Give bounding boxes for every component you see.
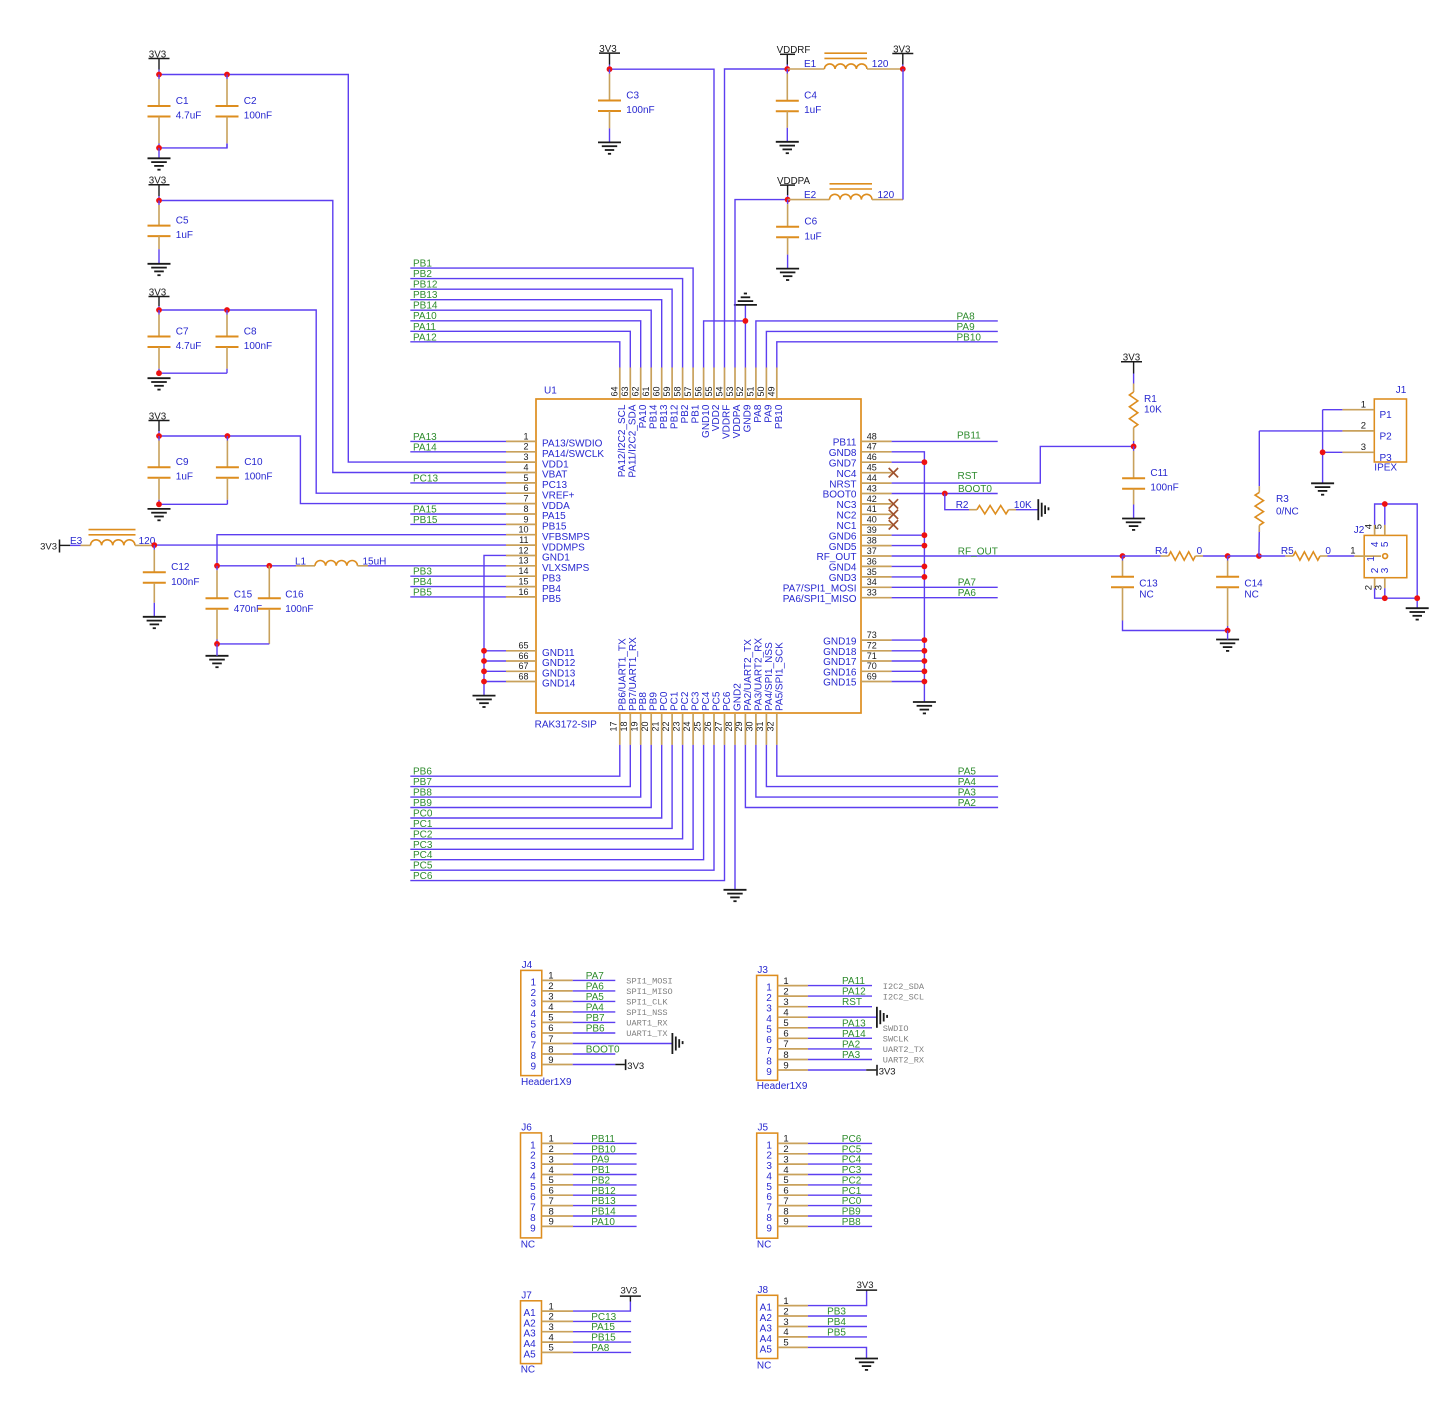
connector J1 IPEX — [1342, 385, 1406, 473]
svg-text:GND3: GND3 — [829, 573, 857, 584]
net label PB6 (U1 pin 17) — [410, 745, 620, 778]
U1 pin 46 GND7 — [829, 452, 892, 469]
svg-text:P2: P2 — [1380, 431, 1393, 442]
connector J7 NC — [521, 1291, 574, 1376]
svg-text:E1: E1 — [804, 59, 817, 70]
svg-text:PB2: PB2 — [413, 269, 432, 280]
svg-text:3V3: 3V3 — [620, 1286, 637, 1297]
svg-text:PA8: PA8 — [591, 1343, 610, 1354]
J3 pin 9 wire to 3V3 — [808, 1065, 896, 1078]
junction C8 top — [224, 307, 230, 313]
svg-text:SPI1_NSS: SPI1_NSS — [626, 1008, 667, 1018]
J3 pin 2 wire — [808, 987, 872, 998]
svg-text:65: 65 — [518, 641, 528, 651]
svg-text:100nF: 100nF — [285, 604, 313, 615]
svg-text:1: 1 — [1350, 545, 1355, 556]
svg-text:7: 7 — [783, 1196, 788, 1207]
ground (J4 pin 7 rotated) — [672, 1033, 682, 1054]
svg-text:7: 7 — [530, 1203, 536, 1214]
svg-text:7: 7 — [766, 1203, 772, 1214]
svg-text:PB10: PB10 — [774, 404, 785, 429]
wire VDDRF rail — [725, 69, 788, 368]
svg-text:PA6: PA6 — [958, 588, 977, 599]
svg-text:58: 58 — [672, 386, 682, 396]
wire J2 pins 4/5 loop — [1375, 504, 1418, 598]
J4 pin 9 wire to 3V3 — [573, 1059, 645, 1072]
svg-text:3: 3 — [766, 1161, 772, 1172]
svg-text:44: 44 — [867, 473, 877, 483]
svg-text:SWCLK: SWCLK — [883, 1035, 910, 1045]
wire RF to R3/R5 — [1228, 555, 1259, 557]
J4 pin 1 label SPI1_MOSI — [626, 977, 672, 987]
svg-text:1: 1 — [783, 976, 788, 987]
svg-text:8: 8 — [783, 1050, 788, 1061]
svg-text:RF_OUT: RF_OUT — [958, 546, 998, 557]
svg-text:PB6/UART1_TX: PB6/UART1_TX — [617, 638, 628, 711]
net label PA7 (pin 34) — [892, 578, 998, 589]
net label PB12 (U1 top) — [410, 280, 672, 368]
svg-text:PC3: PC3 — [413, 840, 433, 851]
U1 pin 49 PB10 — [767, 368, 785, 430]
svg-text:PB9: PB9 — [649, 692, 660, 711]
svg-text:PB11: PB11 — [591, 1134, 615, 1145]
junction C10 top — [225, 433, 231, 439]
wire 3V3 rail C9/C10 to VDDA — [159, 436, 506, 504]
svg-text:63: 63 — [620, 386, 630, 396]
svg-text:68: 68 — [518, 671, 528, 681]
capacitor C12 — [143, 545, 200, 617]
svg-text:4: 4 — [548, 1002, 553, 1013]
junction R3/RF — [1256, 553, 1262, 559]
capacitor C4 — [776, 69, 822, 142]
J3 pin 6 label SWCLK — [883, 1035, 910, 1045]
U1 pin 19 PB8 — [630, 692, 650, 745]
power 3V3 (C3) — [599, 44, 620, 69]
U1 pin 28 GND2 — [724, 683, 744, 745]
svg-text:29: 29 — [734, 721, 744, 731]
J5 pin 2 wire — [808, 1144, 872, 1155]
svg-text:PA8: PA8 — [957, 311, 976, 322]
svg-text:PA6: PA6 — [586, 981, 605, 992]
U1 pin 5 PC13 — [506, 473, 567, 491]
svg-text:6: 6 — [783, 1029, 788, 1040]
svg-text:E3: E3 — [70, 536, 83, 547]
U1 pin 11 VDDMPS — [506, 535, 585, 553]
capacitor C14 NC — [1216, 556, 1263, 631]
wire VFBSMPS feedback — [217, 535, 506, 566]
net label PA2 (U1 bottom) — [745, 745, 998, 809]
U1 pin 72 GND18 — [823, 641, 891, 658]
J4 pin 4 label SPI1_NSS — [626, 1008, 667, 1018]
svg-text:PB14: PB14 — [648, 404, 659, 429]
U1 pin 62 PA10 — [631, 368, 649, 429]
svg-text:45: 45 — [867, 463, 877, 473]
U1 pin 71 GND17 — [823, 651, 891, 668]
junction C14 bottom — [1225, 628, 1231, 634]
svg-text:NRST: NRST — [829, 479, 856, 490]
svg-text:PC5: PC5 — [712, 691, 723, 711]
svg-text:4: 4 — [766, 1014, 772, 1025]
net label PC5 (U1 pin 26) — [410, 745, 714, 872]
svg-text:PB1: PB1 — [413, 259, 432, 270]
svg-text:PA4: PA4 — [586, 1002, 605, 1013]
svg-text:0/NC: 0/NC — [1276, 506, 1299, 517]
junction GND6 — [922, 532, 928, 538]
U1 pin 6 VREF+ — [506, 483, 575, 501]
capacitor C7 — [148, 310, 202, 373]
svg-text:17: 17 — [609, 721, 619, 731]
svg-text:NC3: NC3 — [836, 500, 856, 511]
ground (GND9/GND10 flipped) — [734, 294, 757, 305]
svg-text:SPI1_MOSI: SPI1_MOSI — [626, 977, 672, 987]
svg-text:C2: C2 — [244, 96, 257, 107]
net label PA10 (U1 top) — [410, 311, 640, 367]
svg-text:10K: 10K — [1144, 405, 1162, 416]
U1 pin 15 PB4 — [506, 577, 561, 595]
svg-text:J4: J4 — [522, 960, 533, 971]
wire C9-C10 bottoms — [159, 503, 227, 505]
svg-text:GND2: GND2 — [733, 683, 744, 711]
junction C13/RF — [1120, 553, 1126, 559]
svg-text:33: 33 — [867, 588, 877, 598]
svg-text:A2: A2 — [760, 1313, 773, 1324]
svg-text:PA11: PA11 — [413, 322, 436, 333]
capacitor C16 — [258, 566, 314, 644]
svg-text:2: 2 — [530, 988, 536, 999]
svg-text:GND8: GND8 — [829, 448, 857, 459]
J6 pin 2 wire — [573, 1144, 637, 1155]
J6 pin 5 wire — [573, 1175, 637, 1186]
inductor L1 15uH — [217, 556, 506, 567]
svg-text:100nF: 100nF — [244, 341, 272, 352]
svg-text:J6: J6 — [521, 1123, 532, 1134]
svg-text:PB3: PB3 — [542, 573, 561, 584]
svg-text:5: 5 — [549, 1343, 554, 1354]
wire 3V3 rail C5 to VBAT — [159, 201, 506, 473]
svg-text:PC5: PC5 — [413, 861, 433, 872]
U1 pin 36 GND4 — [829, 556, 892, 573]
J4 pin 2 label SPI1_MISO — [626, 987, 672, 997]
ground (C1/C2) — [148, 158, 171, 169]
svg-text:SWDIO: SWDIO — [883, 1024, 909, 1034]
ground (J8) — [855, 1359, 878, 1370]
connector J3 Header1X9 — [757, 965, 808, 1092]
J3 pin 1 label I2C2_SDA — [883, 982, 925, 992]
svg-text:13: 13 — [518, 556, 528, 566]
svg-text:1uF: 1uF — [804, 231, 821, 242]
svg-text:RST: RST — [842, 997, 862, 1008]
svg-text:PB2: PB2 — [591, 1175, 610, 1186]
svg-text:4: 4 — [549, 1165, 554, 1176]
svg-text:1uF: 1uF — [176, 230, 193, 241]
U1 pin 44 NRST — [829, 473, 891, 490]
svg-text:PC6: PC6 — [413, 871, 433, 882]
svg-text:57: 57 — [683, 386, 693, 396]
net label PB1 (U1 top) — [410, 259, 693, 368]
svg-text:46: 46 — [867, 452, 877, 462]
J3 pin 4 wire to ground — [808, 1016, 876, 1018]
svg-text:47: 47 — [867, 442, 877, 452]
junction GND12 — [481, 658, 487, 664]
svg-text:GND9: GND9 — [743, 404, 754, 432]
J4 pin 2 wire — [573, 981, 616, 992]
net label PB13 (U1 top) — [410, 290, 661, 367]
U1 pin 10 VFBSMPS — [506, 525, 590, 543]
svg-text:PA7: PA7 — [586, 971, 605, 982]
svg-text:3: 3 — [549, 1322, 554, 1333]
svg-text:PB9: PB9 — [842, 1207, 861, 1218]
U1 pin 52 GND9 — [735, 368, 753, 433]
svg-text:27: 27 — [713, 721, 723, 731]
svg-text:PB11: PB11 — [833, 438, 857, 449]
capacitor C8 — [216, 310, 273, 373]
J6 pin 7 wire — [573, 1196, 637, 1207]
U1 pin 21 PC0 — [651, 691, 671, 745]
J8 pin 1 wire to 3V3 — [808, 1280, 877, 1306]
U1 pin 22 PC1 — [661, 691, 681, 745]
svg-text:PC6: PC6 — [842, 1134, 862, 1145]
ferrite bead E2 120 — [788, 184, 903, 201]
svg-text:RF_OUT: RF_OUT — [817, 552, 857, 563]
svg-text:A5: A5 — [523, 1349, 536, 1360]
svg-text:PB4: PB4 — [827, 1317, 846, 1328]
capacitor C1 — [148, 75, 202, 148]
svg-text:PA15: PA15 — [413, 505, 437, 516]
U1 pin 27 PC6 — [713, 691, 733, 745]
svg-text:PA4/SPI1_NSS: PA4/SPI1_NSS — [764, 642, 775, 711]
U1 pin 1 PA13/SWDIO — [506, 431, 603, 449]
resistor R5 0 — [1259, 546, 1355, 560]
svg-text:8: 8 — [523, 504, 528, 514]
net label PA8 (U1 top) — [756, 311, 998, 367]
svg-text:PA14: PA14 — [413, 442, 437, 453]
junction VDDPA — [785, 197, 791, 203]
J5 pin 3 wire — [808, 1155, 872, 1166]
ground (C4) — [776, 142, 799, 153]
svg-text:PB2: PB2 — [680, 404, 691, 423]
svg-text:A3: A3 — [760, 1323, 773, 1334]
net label PB8 (U1 pin 19) — [410, 745, 640, 799]
ground (R2 rotated) — [1038, 499, 1048, 520]
connector J8 NC — [757, 1285, 808, 1372]
svg-text:PB7: PB7 — [586, 1013, 605, 1024]
svg-text:28: 28 — [724, 721, 734, 731]
svg-text:9: 9 — [530, 1061, 536, 1072]
net label PB2 (U1 top) — [410, 269, 682, 367]
connector J4 Header1X9 — [521, 960, 573, 1088]
svg-text:GND14: GND14 — [542, 679, 576, 690]
net label PA9 (U1 top) — [766, 322, 997, 368]
U1 pin 26 PC5 — [703, 691, 723, 745]
svg-text:U1: U1 — [544, 386, 557, 397]
svg-text:C10: C10 — [244, 457, 263, 468]
net label PA11 (U1 top) — [410, 322, 630, 368]
svg-text:L1: L1 — [295, 556, 307, 567]
svg-text:49: 49 — [767, 386, 777, 396]
svg-text:8: 8 — [549, 1206, 554, 1217]
svg-text:3: 3 — [549, 1154, 554, 1165]
junction J2 pin5 top — [1382, 501, 1388, 507]
svg-text:I2C2_SDA: I2C2_SDA — [883, 982, 925, 992]
ground (C7/C8) — [148, 378, 171, 389]
svg-text:4: 4 — [766, 1171, 772, 1182]
svg-text:9: 9 — [548, 1055, 553, 1066]
svg-text:9: 9 — [766, 1067, 772, 1078]
wire C13 to C14 ground — [1123, 625, 1228, 631]
U1 pin 63 PA11/I2C2_SDA — [620, 368, 638, 478]
junction C1 bottom — [156, 145, 162, 151]
capacitor C13 NC — [1111, 556, 1158, 625]
svg-text:1: 1 — [783, 1296, 788, 1307]
junction GND18 — [922, 648, 928, 654]
svg-text:9: 9 — [523, 514, 528, 524]
svg-text:50: 50 — [756, 386, 766, 396]
svg-text:3V3: 3V3 — [879, 1066, 896, 1077]
svg-text:100nF: 100nF — [244, 111, 272, 122]
svg-text:PA14: PA14 — [842, 1029, 866, 1040]
svg-text:I2C2_SCL: I2C2_SCL — [883, 992, 924, 1002]
svg-text:24: 24 — [682, 721, 692, 731]
net label PC1 (U1 pin 22) — [410, 745, 672, 830]
junction R1/C11/RST — [1131, 444, 1137, 450]
svg-text:8: 8 — [766, 1056, 772, 1067]
svg-text:VREF+: VREF+ — [542, 490, 575, 501]
U1 pin 13 VLXSMPS — [506, 556, 590, 574]
svg-text:PC13: PC13 — [413, 473, 438, 484]
svg-text:UART1_TX: UART1_TX — [626, 1029, 667, 1039]
J5 pin 6 wire — [808, 1186, 872, 1197]
wire J1 P1/P3 to ground — [1323, 410, 1343, 484]
svg-text:VDDA: VDDA — [542, 501, 570, 512]
svg-text:VDDRF: VDDRF — [722, 405, 733, 439]
svg-text:4: 4 — [523, 462, 528, 472]
svg-text:GND10: GND10 — [701, 404, 712, 438]
svg-text:PB5: PB5 — [827, 1327, 846, 1338]
svg-text:PA3/UART2_RX: PA3/UART2_RX — [753, 638, 764, 711]
U1 pin 3 VDD1 — [506, 452, 569, 470]
U1 pin 47 GND8 — [829, 442, 892, 459]
resistor R3 0/NC — [1255, 431, 1299, 556]
U1 pin 51 PA8 — [746, 368, 764, 423]
svg-text:PA10: PA10 — [638, 404, 649, 428]
junction GND7 — [922, 459, 928, 465]
J6 pin 1 wire — [573, 1134, 637, 1145]
U1 pin 53 VDDPA — [725, 368, 743, 439]
capacitor C9 — [148, 436, 194, 504]
svg-text:6: 6 — [783, 1186, 788, 1197]
U1 pin 12 GND1 — [506, 545, 570, 563]
svg-text:2: 2 — [1361, 421, 1366, 432]
wire U1 right GND rail — [892, 452, 925, 702]
svg-text:J3: J3 — [757, 965, 768, 976]
J8 pin 3 wire — [808, 1317, 867, 1328]
svg-text:1: 1 — [548, 971, 553, 982]
svg-text:3: 3 — [548, 992, 553, 1003]
net label PB9 (U1 pin 20) — [410, 745, 651, 809]
net label PB4 (U1 pin 15) — [410, 577, 506, 588]
ground (C6) — [776, 269, 799, 280]
svg-text:26: 26 — [703, 721, 713, 731]
svg-text:PC4: PC4 — [842, 1155, 862, 1166]
net label PA4 (U1 bottom) — [766, 745, 998, 788]
svg-text:0: 0 — [1197, 546, 1203, 557]
svg-text:PB8: PB8 — [842, 1217, 861, 1228]
J3 pin 2 label I2C2_SCL — [883, 992, 924, 1002]
svg-text:55: 55 — [704, 386, 714, 396]
svg-text:69: 69 — [867, 671, 877, 681]
svg-text:PA3: PA3 — [842, 1050, 861, 1061]
svg-text:0: 0 — [1325, 546, 1331, 557]
no-connect X NC2 — [889, 510, 898, 519]
svg-text:PB13: PB13 — [413, 290, 438, 301]
ground (U1 right GND) — [913, 702, 936, 713]
svg-text:PA13: PA13 — [842, 1018, 866, 1029]
U1 pin 58 PB2 — [672, 368, 690, 424]
svg-text:NC1: NC1 — [836, 521, 856, 532]
svg-text:3: 3 — [1380, 567, 1391, 573]
svg-text:3: 3 — [783, 1154, 788, 1165]
svg-text:PA9: PA9 — [764, 404, 775, 423]
svg-text:PA3: PA3 — [958, 788, 977, 799]
svg-text:1uF: 1uF — [176, 472, 193, 483]
svg-text:100nF: 100nF — [626, 105, 654, 116]
ground (C12) — [143, 617, 166, 628]
svg-text:PC4: PC4 — [701, 691, 712, 711]
net label PA5 (U1 bottom) — [777, 745, 998, 778]
wire GND10/GND9 to ground — [704, 305, 746, 367]
svg-text:21: 21 — [651, 721, 661, 731]
J4 pin 5 wire — [573, 1013, 616, 1024]
U1 pin 70 GND16 — [823, 661, 891, 678]
svg-text:3V3: 3V3 — [40, 542, 57, 553]
U1 pin 48 PB11 — [833, 431, 892, 448]
svg-text:PB6: PB6 — [586, 1024, 605, 1035]
svg-text:9: 9 — [766, 1223, 772, 1234]
net label PB3 (U1 pin 14) — [410, 567, 506, 578]
svg-text:UART1_RX: UART1_RX — [626, 1019, 667, 1029]
svg-text:NC: NC — [521, 1365, 535, 1376]
ground (J2) — [1406, 608, 1429, 619]
svg-text:4: 4 — [530, 1009, 536, 1020]
U1 pin 50 PA9 — [756, 368, 774, 423]
svg-text:PA10: PA10 — [591, 1217, 615, 1228]
svg-text:PC2: PC2 — [413, 829, 433, 840]
svg-text:A5: A5 — [760, 1344, 773, 1355]
svg-text:1: 1 — [549, 1134, 554, 1145]
U1 pin 57 PB1 — [683, 368, 701, 424]
junction GND14 — [481, 679, 487, 685]
svg-text:NC: NC — [1139, 590, 1153, 601]
svg-text:42: 42 — [867, 494, 877, 504]
svg-text:5: 5 — [1380, 541, 1391, 547]
U1 pin 31 PA4/SPI1_NSS — [755, 642, 775, 745]
junction GND19 — [922, 637, 928, 643]
svg-text:1: 1 — [766, 983, 772, 994]
svg-text:PB3: PB3 — [413, 567, 432, 578]
power 3V3 (C1/C2 bank) — [149, 49, 170, 74]
junction C15 bottom — [214, 641, 220, 647]
ground (J3 pin 4 rotated) — [877, 1007, 887, 1028]
junction GND4 — [922, 564, 928, 570]
svg-text:3: 3 — [783, 997, 788, 1008]
svg-text:3: 3 — [1361, 442, 1366, 453]
svg-text:64: 64 — [610, 386, 620, 396]
svg-text:7: 7 — [766, 1046, 772, 1057]
svg-text:62: 62 — [631, 386, 641, 396]
svg-text:3: 3 — [766, 1004, 772, 1015]
power 3V3 (C5) — [149, 176, 170, 201]
power 3V3 (C9/C10 bank) — [149, 411, 170, 436]
